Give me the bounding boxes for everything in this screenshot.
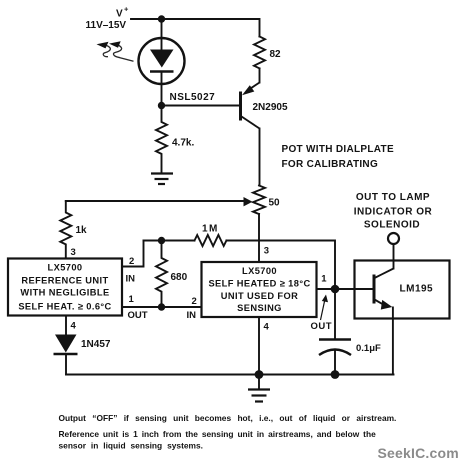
wire base xyxy=(162,105,240,107)
svg-text:Reference unit is 1 inch from: Reference unit is 1 inch from the sensin… xyxy=(59,429,377,439)
wire cathode xyxy=(161,72,163,106)
resistor 1k xyxy=(60,201,71,258)
svg-text:FOR CALIBRATING: FOR CALIBRATING xyxy=(282,159,379,170)
wire collector xyxy=(259,129,261,186)
svg-text:Output “OFF” if sensing unit b: Output “OFF” if sensing unit becomes hot… xyxy=(59,413,397,423)
svg-text:SELF HEAT. ≥ 0.6°C: SELF HEAT. ≥ 0.6°C xyxy=(18,302,111,312)
svg-text:sensor in liquid sensing syste: sensor in liquid sensing systems. xyxy=(59,441,203,451)
node 680 top xyxy=(158,237,165,244)
wire diode to bottom rail xyxy=(65,354,67,375)
svg-text:POT WITH DIALPLATE: POT WITH DIALPLATE xyxy=(282,144,394,155)
label OUT with arrow xyxy=(311,295,333,333)
svg-text:OUT TO LAMP: OUT TO LAMP xyxy=(356,192,430,203)
wire out node to LM195 base xyxy=(335,288,374,290)
light arrows xyxy=(97,41,134,61)
wire pot to pin 3 xyxy=(258,214,260,262)
svg-text:4: 4 xyxy=(71,321,77,332)
capacitor 0.1uF xyxy=(319,340,351,356)
svg-text:1M: 1M xyxy=(202,224,219,235)
svg-text:UNIT USED FOR: UNIT USED FOR xyxy=(221,291,299,301)
wire out node to capacitor xyxy=(334,289,336,340)
svg-text:1k: 1k xyxy=(76,225,88,236)
IC U1 LX5700 reference unit xyxy=(8,259,122,316)
wire terminal to collector xyxy=(393,244,395,269)
svg-text:1N457: 1N457 xyxy=(81,339,111,350)
wire pin 2 U1 to feedback rail xyxy=(122,241,144,267)
svg-text:LM195: LM195 xyxy=(400,284,434,295)
wire anode xyxy=(161,19,163,50)
svg-text:INDICATOR OR: INDICATOR OR xyxy=(354,207,433,218)
svg-text:SeekIC.com: SeekIC.com xyxy=(378,445,459,461)
svg-text:2: 2 xyxy=(192,296,197,307)
svg-text:SENSING: SENSING xyxy=(237,303,282,313)
node V+ junction xyxy=(158,15,165,22)
wire U1 out to U2 in xyxy=(122,306,202,308)
transistor LM195 xyxy=(355,261,450,319)
svg-text:11V–15V: 11V–15V xyxy=(86,20,127,31)
svg-text:2N2905: 2N2905 xyxy=(253,102,288,113)
svg-text:3: 3 xyxy=(71,247,76,258)
wire bottom rail xyxy=(66,374,394,376)
label V+ supply xyxy=(86,5,130,32)
svg-text:1: 1 xyxy=(321,273,327,284)
resistor 680 xyxy=(156,241,167,308)
svg-text:2: 2 xyxy=(129,256,134,267)
svg-text:1: 1 xyxy=(129,294,135,305)
node OUT xyxy=(331,285,340,294)
svg-text:0.1μF: 0.1μF xyxy=(356,343,381,354)
svg-text:V: V xyxy=(116,9,123,20)
wire emitter top xyxy=(259,68,261,82)
svg-text:LX5700: LX5700 xyxy=(242,266,277,276)
svg-text:SELF HEATED ≥ 18°C: SELF HEATED ≥ 18°C xyxy=(208,279,310,289)
svg-text:REFERENCE UNIT: REFERENCE UNIT xyxy=(21,276,108,286)
wire pin 4 U2 to ground xyxy=(258,317,260,388)
resistor 82 xyxy=(254,37,265,69)
node base junction xyxy=(158,102,165,109)
ground sensing xyxy=(248,390,270,402)
svg-text:NSL5027: NSL5027 xyxy=(170,92,216,103)
svg-text:+: + xyxy=(124,5,129,14)
svg-text:IN: IN xyxy=(187,310,197,321)
wire wiper xyxy=(66,200,245,202)
diode 1N457 xyxy=(54,335,78,355)
svg-text:SOLENOID: SOLENOID xyxy=(364,220,420,231)
wiper arrowhead xyxy=(244,197,253,206)
resistor 1M xyxy=(195,235,227,246)
svg-text:4: 4 xyxy=(264,322,270,333)
terminal to lamp xyxy=(388,233,399,244)
svg-text:WITH NEGLIGIBLE: WITH NEGLIGIBLE xyxy=(20,288,109,298)
svg-text:LX5700: LX5700 xyxy=(48,263,83,273)
svg-text:4.7k.: 4.7k. xyxy=(172,138,194,149)
wire V+ rail xyxy=(131,19,260,37)
transistor Q1 2N2905 xyxy=(241,83,260,129)
svg-text:OUT: OUT xyxy=(128,310,148,321)
wire feedback rail right xyxy=(227,241,336,289)
svg-text:680: 680 xyxy=(171,272,188,283)
svg-text:50: 50 xyxy=(269,198,281,209)
svg-text:OUT: OUT xyxy=(311,321,333,332)
wire emitter to bottom rail xyxy=(392,308,394,375)
photodiode NSL5027 xyxy=(139,38,185,84)
ground xyxy=(151,174,173,185)
node ground junction xyxy=(255,370,264,379)
svg-text:3: 3 xyxy=(264,245,269,256)
label POT WITH DIALPLATE FOR CALIBRATING xyxy=(282,144,394,170)
node capacitor bottom xyxy=(331,370,340,379)
node 680 bottom xyxy=(158,303,165,310)
IC U2 LX5700 sensing unit xyxy=(202,262,317,317)
resistor 4.7k xyxy=(156,106,167,172)
potentiometer 50 xyxy=(253,186,265,215)
wire pin 1 U2 to out node xyxy=(317,288,335,290)
wire capacitor to bottom rail xyxy=(334,351,336,375)
wire pin 4 U1 xyxy=(65,316,67,336)
svg-text:IN: IN xyxy=(126,274,136,285)
wire feedback rail left xyxy=(144,240,195,242)
svg-text:82: 82 xyxy=(270,49,282,60)
label OUT TO LAMP INDICATOR OR SOLENOID xyxy=(354,192,433,231)
